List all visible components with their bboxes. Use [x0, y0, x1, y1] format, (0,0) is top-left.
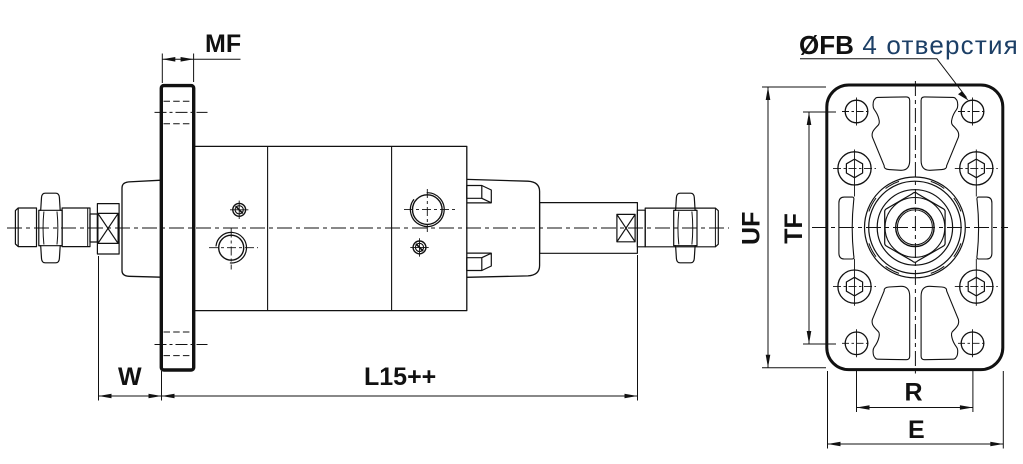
center boss outer ring: [865, 177, 966, 278]
head screw top-right: [955, 152, 998, 185]
rod chamfer circle: [897, 210, 932, 245]
boss ring chamfer segments: [869, 181, 961, 273]
head screw bottom-right: [955, 270, 998, 303]
pocket right-middle: [977, 197, 992, 259]
flange horizontal centerline: [812, 227, 1008, 229]
right head top tab: [467, 186, 492, 203]
svg-text:E: E: [908, 416, 925, 444]
rod wiper X-box right: [617, 214, 635, 241]
corner hole top-left: [842, 98, 871, 126]
dimension MF: [162, 54, 240, 84]
dimension R: [857, 371, 973, 412]
svg-text:W: W: [118, 363, 142, 391]
corner hole bottom-left: [842, 329, 871, 357]
left rod threaded section: [62, 208, 90, 247]
flange plate side view: [161, 86, 193, 370]
right rod neck: [637, 210, 645, 247]
head screw top-left: [833, 152, 876, 185]
leader line FB holes: [800, 59, 969, 101]
left rod neck: [90, 214, 97, 242]
piston rod: [540, 203, 638, 254]
cylinder body: [194, 146, 467, 310]
svg-text:L15++: L15++: [364, 363, 436, 391]
flange outline: [827, 85, 1003, 370]
dimension TF: [803, 112, 836, 344]
left wiper X-box: [98, 213, 118, 243]
left rod nut: [39, 193, 62, 263]
dimension UF: [762, 87, 826, 368]
pocket top-left: [872, 97, 910, 170]
pilot circle: [877, 190, 952, 265]
dimension W: [99, 256, 162, 401]
left wiper housing: [97, 204, 119, 254]
corner hole top-right: [958, 98, 987, 126]
svg-text:MF: MF: [205, 30, 241, 58]
svg-text:R: R: [905, 379, 923, 407]
right rod nut: [674, 193, 697, 263]
left gland head: [122, 180, 161, 277]
right rod thread: [645, 208, 718, 247]
right cap bleed screw: [410, 238, 428, 256]
head screw bottom-left: [833, 270, 876, 303]
dimension E: [828, 371, 1004, 449]
pocket bottom-left: [872, 286, 910, 359]
pocket top-right: [921, 97, 959, 170]
pocket bottom-right: [921, 286, 959, 359]
right head cap: [467, 179, 540, 277]
left cap port: [209, 229, 258, 270]
left rod thread: [15, 208, 36, 247]
centerline main axis side view: [7, 227, 729, 229]
svg-text:UF: UF: [738, 212, 766, 245]
plate lower hidden hole: [155, 332, 208, 356]
svg-text:TF: TF: [780, 213, 808, 244]
rod nut hexagon: [885, 193, 945, 263]
piston rod circle: [896, 208, 934, 246]
left cap bleed screw: [230, 201, 248, 219]
right head bottom tab: [467, 253, 492, 270]
plate upper hidden hole: [155, 101, 208, 124]
nut chamfer circle: [885, 198, 945, 258]
flange vertical centerline: [914, 81, 916, 374]
pocket left-middle: [839, 197, 854, 259]
dimension L15++: [162, 255, 638, 401]
screw column centerlines: [855, 150, 977, 306]
corner hole bottom-right: [958, 329, 987, 357]
svg-text:ØFB 4 отверстия: ØFB 4 отверстия: [799, 30, 1019, 60]
right cap port: [404, 189, 456, 232]
